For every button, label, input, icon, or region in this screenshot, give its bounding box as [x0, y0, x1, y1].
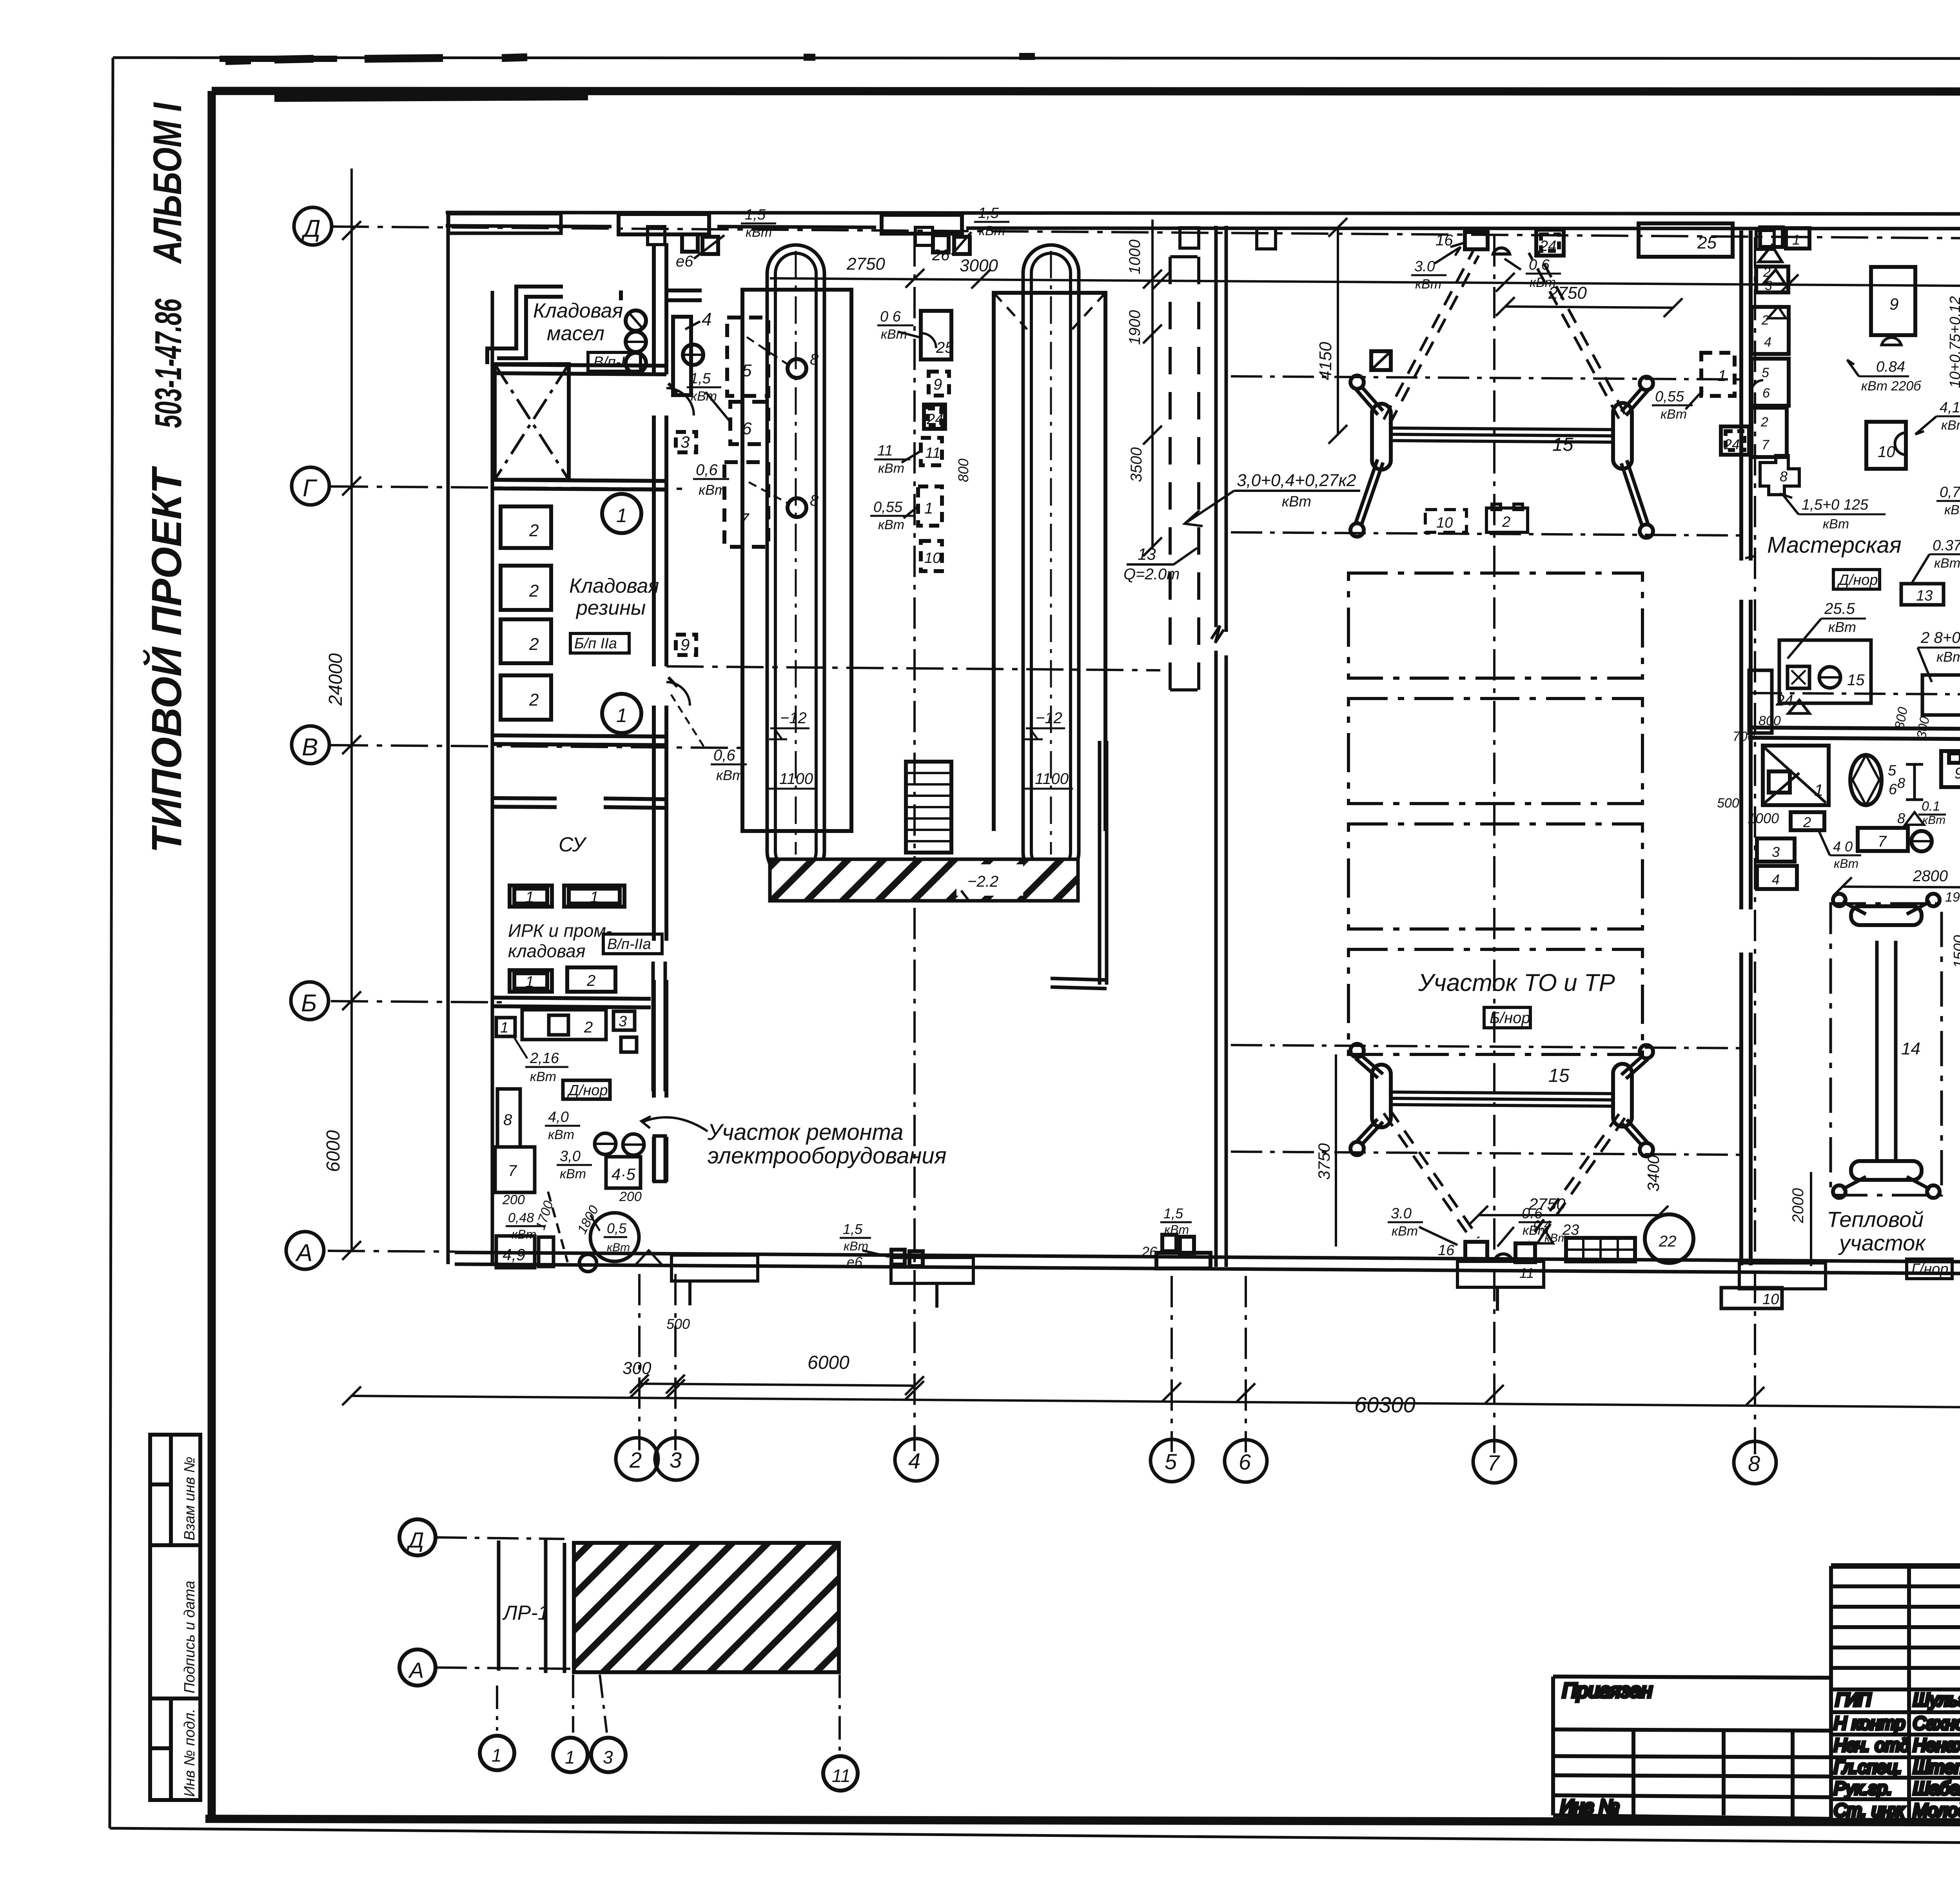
category label boxes	[570, 352, 662, 954]
svg-text:Инв № подл.: Инв № подл.	[181, 1709, 198, 1797]
svg-text:Сахновская: Сахновская	[1913, 1713, 1960, 1733]
axis Б bubble	[291, 982, 328, 1020]
axis А chain line	[328, 1251, 455, 1252]
svg-text:Б/п IIа: Б/п IIа	[574, 635, 617, 652]
dashed V down to bottom	[1384, 1109, 1625, 1245]
svg-text:11: 11	[877, 443, 893, 459]
axis Д chain line	[332, 227, 1960, 242]
svg-text:В: В	[302, 734, 318, 761]
svg-text:22: 22	[1659, 1233, 1677, 1250]
box 4,9	[496, 1236, 535, 1268]
sub dimension line 300 / 6000	[639, 1384, 915, 1386]
svg-text:Г: Г	[303, 475, 318, 502]
svg-text:60300: 60300	[1354, 1392, 1416, 1417]
box 7 + theta	[1858, 828, 1908, 851]
hatched ramp strip	[770, 859, 1078, 901]
rails triple	[1391, 428, 1614, 442]
axis Г chain line	[331, 486, 682, 489]
svg-text:Инв №: Инв №	[1560, 1796, 1619, 1817]
svg-text:7: 7	[1762, 437, 1769, 452]
door swing symbols on east wall	[666, 388, 694, 706]
svg-text:кВт: кВт	[1944, 503, 1960, 517]
svg-text:0,5: 0,5	[607, 1220, 627, 1236]
svg-text:кВт: кВт	[530, 1069, 556, 1084]
svg-text:2: 2	[1760, 415, 1768, 430]
circles 8 in pit1	[788, 359, 806, 378]
big circle 0,5	[590, 1213, 639, 1261]
bottom axis bubbles 2..11	[616, 1438, 1960, 1486]
big box 15	[1779, 640, 1871, 703]
box 9 dashed on wall	[676, 635, 696, 655]
svg-text:7: 7	[1878, 833, 1887, 850]
svg-text:Шабельницкий: Шабельницкий	[1913, 1778, 1960, 1798]
svg-text:19.4 кВо: 19.4 кВо	[1945, 890, 1960, 905]
svg-text:500: 500	[1717, 796, 1739, 811]
box 25 top	[1639, 223, 1733, 257]
box 1	[496, 1018, 515, 1036]
svg-text:0.37: 0.37	[1933, 537, 1960, 554]
svg-text:Кладовая: Кладовая	[533, 299, 623, 322]
dim 2750	[1505, 307, 1673, 308]
svg-text:4,0: 4,0	[548, 1109, 569, 1125]
svg-text:0,6: 0,6	[696, 461, 718, 479]
svg-text:−12: −12	[1036, 709, 1062, 727]
svg-text:3400: 3400	[1644, 1155, 1662, 1192]
top-left sheet edge marks	[220, 56, 1035, 97]
svg-text:503-1-47.86: 503-1-47.86	[147, 299, 189, 428]
apex box 16	[1465, 232, 1488, 249]
svg-text:300: 300	[622, 1359, 652, 1378]
svg-text:4150: 4150	[1316, 342, 1335, 380]
svg-text:Нач. отд: Нач. отд	[1834, 1735, 1910, 1755]
box 3 dashed on wall	[676, 432, 696, 452]
svg-text:кВт: кВт	[1415, 277, 1441, 292]
svg-text:1: 1	[590, 889, 599, 906]
svg-text:кВт: кВт	[881, 327, 907, 342]
circled 1 upper	[602, 494, 641, 533]
svg-text:кВт: кВт	[607, 1241, 630, 1254]
svg-text:15: 15	[1552, 434, 1573, 455]
detail bottom bubbles	[480, 1736, 514, 1770]
box 9	[1941, 751, 1960, 787]
svg-text:26: 26	[932, 247, 950, 264]
svg-text:2: 2	[584, 1019, 593, 1036]
box 7	[495, 1147, 535, 1192]
east wall of left section	[654, 243, 666, 1182]
svg-text:2: 2	[529, 690, 539, 709]
svg-text:1000: 1000	[1748, 810, 1779, 826]
lower masterskaya equipment	[1733, 516, 1960, 744]
mid column boxes between pits	[921, 311, 951, 359]
svg-text:1,5: 1,5	[690, 370, 711, 387]
svg-text:Участок ТО и ТР: Участок ТО и ТР	[1418, 969, 1615, 996]
svg-text:кВт: кВт	[878, 517, 904, 532]
svg-text:3: 3	[603, 1747, 613, 1767]
svg-text:1: 1	[565, 1747, 575, 1767]
axis Б chain line	[331, 1001, 502, 1002]
svg-text:кВт: кВт	[1544, 1232, 1568, 1245]
ТЕПЛОВОЙ УЧАСТОК lift 14	[1831, 904, 1942, 1195]
part 8 odd shape	[1760, 455, 1799, 495]
svg-text:25.5: 25.5	[1824, 600, 1855, 617]
privyazan table	[1553, 1677, 1831, 1819]
axis А bubble	[399, 1649, 436, 1686]
svg-text:кВт 220б: кВт 220б	[1861, 379, 1922, 394]
svg-text:4,9: 4,9	[503, 1245, 525, 1264]
small square	[621, 1037, 637, 1052]
svg-text:Штепин: Штепин	[1913, 1757, 1960, 1777]
left vertical dimension line with ticks	[350, 169, 353, 1251]
gate on А wall near axis 3	[891, 1250, 905, 1265]
svg-text:4·5: 4·5	[612, 1165, 635, 1183]
svg-text:3,0+0,4+0,27к2: 3,0+0,4+0,27к2	[1237, 471, 1356, 490]
ladder between pits	[906, 762, 951, 853]
svg-text:10: 10	[1878, 443, 1895, 461]
svg-text:3.0: 3.0	[1391, 1205, 1412, 1222]
svg-text:кВт: кВт	[1922, 814, 1945, 827]
svg-text:кВт: кВт	[1823, 517, 1849, 532]
svg-text:5: 5	[742, 361, 752, 380]
two theta circles	[595, 1133, 616, 1154]
wall column squares below top wall	[648, 227, 1960, 251]
signature rows text	[1834, 1689, 1960, 1820]
svg-text:6: 6	[1239, 1450, 1251, 1474]
square with diagonal	[1371, 351, 1391, 370]
room partition y1224	[492, 480, 666, 490]
box 4.5	[606, 1157, 641, 1188]
svg-text:ИРК и пром-: ИРК и пром-	[508, 920, 612, 941]
svg-text:800: 800	[955, 459, 971, 482]
svg-text:Д/нор: Д/нор	[1837, 572, 1878, 588]
svg-text:6: 6	[1889, 781, 1897, 798]
left pill	[1372, 404, 1391, 470]
small rect	[539, 1237, 554, 1267]
room wall below masterskaya y1930	[1751, 728, 1960, 739]
svg-text:9: 9	[1889, 295, 1898, 313]
svg-text:13: 13	[1916, 588, 1933, 604]
svg-text:2000: 2000	[1789, 1188, 1807, 1223]
svg-text:участок: участок	[1838, 1230, 1926, 1255]
vestibule top-left gate bar	[448, 214, 561, 233]
pit loop 2 stadium	[1023, 245, 1079, 880]
dashed boxes 10 и 2 below upper lift	[1425, 504, 1528, 532]
svg-text:кВт: кВт	[878, 461, 904, 476]
label box Д/нор	[563, 1080, 610, 1099]
svg-text:1: 1	[1792, 232, 1800, 248]
left vertical big text	[142, 102, 190, 853]
horizontal chain + dims near box15	[1751, 693, 1960, 695]
left stamp table (bottom)	[150, 1435, 200, 1800]
svg-text:кВт: кВт	[1941, 418, 1960, 433]
pit loop 1 stadium	[767, 245, 824, 880]
svg-text:2750: 2750	[1548, 283, 1587, 303]
svg-text:ТИПОВОЙ ПРОЕКТ: ТИПОВОЙ ПРОЕКТ	[142, 466, 190, 853]
upper lift 15: top chain	[1231, 376, 1740, 379]
upper lift bottom chain	[1231, 532, 1740, 535]
svg-text:8: 8	[1780, 468, 1788, 484]
svg-text:14: 14	[1901, 1039, 1920, 1058]
right pill	[1613, 403, 1632, 469]
box 10 with dome	[1866, 422, 1906, 469]
box 24 tall dashed	[1749, 670, 1772, 733]
svg-text:8: 8	[810, 492, 819, 509]
svg-text:ЛР-1: ЛР-1	[502, 1602, 549, 1624]
svg-text:Кладовая: Кладовая	[569, 575, 659, 597]
svg-text:2: 2	[1502, 514, 1510, 530]
small box 24 left of wall	[1721, 426, 1749, 455]
svg-text:1: 1	[1718, 367, 1726, 385]
svg-text:5: 5	[1888, 762, 1896, 779]
svg-text:0,55: 0,55	[873, 499, 903, 515]
box 16	[1922, 675, 1960, 715]
svg-text:1100: 1100	[779, 770, 813, 788]
svg-text:Рук.гр.: Рук.гр.	[1834, 1778, 1892, 1798]
grid box 23	[1566, 1238, 1635, 1261]
svg-text:0.6: 0.6	[1529, 257, 1550, 273]
svg-text:4: 4	[908, 1448, 920, 1473]
svg-text:Г/нор: Г/нор	[1911, 1261, 1948, 1277]
svg-text:9: 9	[933, 376, 942, 393]
Участок ремонта электрооборудования label	[707, 1120, 947, 1169]
svg-text:10: 10	[1762, 1291, 1779, 1308]
svg-text:резины: резины	[575, 597, 646, 619]
svg-text:кВт: кВт	[746, 225, 772, 240]
svg-text:200: 200	[502, 1192, 525, 1207]
apex box 24 double	[1536, 230, 1564, 256]
svg-text:3: 3	[1772, 844, 1780, 860]
svg-text:3500: 3500	[1128, 447, 1145, 482]
svg-text:кВт: кВт	[1392, 1224, 1418, 1239]
svg-text:1100: 1100	[1035, 770, 1069, 788]
svg-text:3,0: 3,0	[560, 1148, 581, 1165]
svg-text:3: 3	[619, 1013, 627, 1030]
I mark	[1906, 764, 1923, 800]
svg-text:25: 25	[1697, 233, 1717, 252]
hatched slab	[574, 1543, 839, 1672]
pilaster stubs east wall	[621, 290, 702, 300]
svg-text:3: 3	[670, 1448, 682, 1472]
pit rect 1	[742, 290, 851, 831]
svg-text:Ст. инж: Ст. инж	[1834, 1800, 1905, 1820]
svg-text:2750: 2750	[1528, 1195, 1566, 1213]
box 9	[1871, 267, 1915, 335]
svg-text:Ненахов: Ненахов	[1913, 1735, 1960, 1755]
svg-text:е6: е6	[676, 253, 693, 270]
west wall of building	[448, 214, 492, 1264]
svg-text:3: 3	[681, 433, 690, 451]
box 8	[497, 1089, 520, 1147]
svg-text:9: 9	[1955, 765, 1960, 782]
svg-text:В/п-I: В/п-I	[593, 354, 625, 370]
svg-text:Д: Д	[301, 215, 321, 242]
bottom boxes	[1465, 1242, 1487, 1260]
svg-text:Б/нор: Б/нор	[1490, 1009, 1530, 1027]
slanted arms	[1356, 386, 1383, 526]
gate on axis5 wall bottom	[1156, 1253, 1210, 1268]
svg-text:кВт: кВт	[560, 1167, 586, 1181]
svg-text:СУ: СУ	[559, 833, 587, 856]
svg-text:2: 2	[1803, 814, 1811, 830]
svg-text:Д/нор: Д/нор	[567, 1082, 608, 1099]
partition dashed double line axis5 area	[1170, 257, 1199, 690]
axis Д bubble	[294, 207, 332, 245]
axis В bubble	[292, 726, 329, 764]
box 3	[613, 1011, 635, 1030]
axis А bubble	[286, 1232, 324, 1269]
svg-text:кВт: кВт	[548, 1127, 574, 1142]
room partition y1876	[492, 735, 666, 745]
oval 5/6	[1850, 755, 1882, 805]
svg-text:5: 5	[1165, 1449, 1177, 1474]
svg-text:ГИП: ГИП	[1835, 1689, 1871, 1710]
svg-text:1000: 1000	[1126, 240, 1143, 274]
svg-text:0,6: 0,6	[713, 747, 735, 764]
vertical column axis chain lines	[638, 1274, 641, 1450]
svg-text:Б: Б	[301, 990, 317, 1017]
lower lift 15 top chain	[1231, 1045, 1740, 1048]
svg-text:5: 5	[1762, 365, 1769, 380]
svg-text:1,5: 1,5	[1163, 1205, 1183, 1221]
svg-text:2: 2	[1761, 313, 1769, 328]
building bottom wall on axis A	[455, 1252, 1960, 1277]
bottom dimension line 60300	[352, 1396, 1960, 1411]
svg-text:масел: масел	[547, 322, 604, 345]
svg-text:Гл.спец.: Гл.спец.	[1834, 1757, 1902, 1777]
svg-text:200: 200	[619, 1189, 642, 1204]
svg-text:А: А	[408, 1658, 424, 1682]
svg-text:4: 4	[1772, 871, 1780, 887]
dashed V to apex	[1384, 249, 1625, 424]
wall right of electro room	[653, 962, 665, 1091]
rezina room: 4 boxes 2	[501, 506, 551, 548]
svg-text:24: 24	[1539, 238, 1556, 254]
svg-text:2800: 2800	[1913, 867, 1948, 885]
svg-text:Шульгин: Шульгин	[1913, 1689, 1960, 1710]
svg-text:2: 2	[529, 635, 539, 654]
svg-text:4,15: 4,15	[1940, 399, 1960, 416]
svg-text:8: 8	[503, 1111, 512, 1129]
4 car rectangles dash-dot	[1348, 573, 1642, 678]
svg-text:Молодцова: Молодцова	[1913, 1800, 1960, 1820]
svg-text:1500: 1500	[1951, 935, 1960, 968]
svg-text:−12: −12	[780, 709, 807, 727]
left equipment stack	[1756, 267, 1788, 292]
svg-text:Участок ремонта: Участок ремонта	[707, 1120, 904, 1145]
dim 4150 vertical	[1337, 227, 1339, 434]
svg-text:25: 25	[936, 339, 954, 356]
funnel box 1	[1763, 746, 1829, 805]
svg-text:6: 6	[742, 419, 752, 438]
svg-text:кВт: кВт	[979, 223, 1005, 238]
svg-text:500: 500	[666, 1316, 690, 1332]
svg-text:10: 10	[1436, 515, 1453, 531]
svg-text:8: 8	[810, 351, 819, 368]
svg-text:1: 1	[924, 500, 933, 517]
svg-text:1: 1	[616, 504, 627, 526]
svg-text:2750: 2750	[846, 254, 885, 274]
svg-text:16: 16	[1438, 1242, 1455, 1259]
svg-text:24000: 24000	[325, 653, 346, 706]
dashed box 1 left of wall	[1701, 353, 1735, 396]
svg-text:Н контр: Н контр	[1834, 1713, 1905, 1733]
svg-text:11: 11	[925, 445, 940, 461]
circle 22	[1645, 1214, 1693, 1263]
svg-text:Q=2.0т: Q=2.0т	[1123, 566, 1180, 583]
vertical dim chain right of pits	[1126, 220, 1162, 556]
svg-text:3750: 3750	[1315, 1143, 1333, 1180]
svg-text:11: 11	[1519, 1265, 1534, 1281]
svg-text:Д: Д	[406, 1528, 424, 1552]
svg-text:1,5: 1,5	[745, 207, 766, 223]
pit wall lines	[499, 1539, 564, 1673]
svg-text:8: 8	[1897, 775, 1905, 791]
svg-text:кВт: кВт	[1164, 1223, 1189, 1237]
axis Д bubble	[399, 1519, 436, 1555]
circled 1 lower	[602, 694, 641, 733]
svg-text:кВт: кВт	[1834, 856, 1858, 871]
svg-text:2: 2	[529, 581, 539, 601]
svg-text:2,16: 2,16	[530, 1050, 559, 1067]
Участок ТО и ТР label	[1418, 969, 1615, 996]
svg-text:6000: 6000	[323, 1130, 344, 1172]
gate bar 1 on top wall	[619, 214, 709, 234]
room partition y2545	[492, 998, 651, 1007]
vertical chains to bottom circles	[497, 1675, 840, 1752]
apex dome	[1493, 248, 1510, 254]
svg-text:В/п-IIа: В/п-IIа	[607, 936, 651, 953]
svg-text:кладовая: кладовая	[508, 941, 585, 961]
svg-text:0 6: 0 6	[880, 308, 901, 325]
svg-text:10+0,75+0,12: 10+0,75+0,12	[1947, 296, 1960, 388]
svg-text:2 8+0 4: 2 8+0 4	[1920, 629, 1960, 646]
box 2 long with inner square	[522, 1010, 606, 1040]
svg-text:кВт: кВт	[1936, 649, 1960, 665]
svg-text:24: 24	[926, 411, 943, 428]
svg-text:15: 15	[1548, 1065, 1570, 1086]
svg-text:кВт: кВт	[1934, 556, 1960, 571]
top small boxes with triangles	[1760, 227, 1783, 247]
column pads on bottom wall	[671, 1255, 1960, 1316]
svg-text:8: 8	[1748, 1451, 1760, 1476]
svg-text:7: 7	[508, 1162, 517, 1179]
boxes 3 4	[1757, 838, 1795, 862]
svg-text:А: А	[295, 1239, 312, 1267]
svg-text:6000: 6000	[808, 1352, 849, 1373]
svg-text:1: 1	[1814, 781, 1823, 799]
svg-text:2: 2	[629, 1448, 642, 1472]
svg-text:4: 4	[702, 309, 712, 329]
svg-text:0.84: 0.84	[1876, 359, 1905, 375]
svg-text:13: 13	[1138, 545, 1156, 563]
axis Г bubble	[292, 467, 329, 505]
svg-text:1,5+0 125: 1,5+0 125	[1802, 497, 1869, 513]
svg-text:кВт: кВт	[716, 767, 744, 783]
svg-text:0,75: 0,75	[1940, 484, 1960, 501]
svg-text:3000: 3000	[960, 256, 998, 275]
svg-text:1: 1	[500, 1020, 508, 1036]
svg-text:Привязан: Привязан	[1562, 1679, 1652, 1702]
corner circles	[1350, 376, 1364, 389]
dim 2800	[1842, 887, 1960, 887]
west wall of masterskaya	[1741, 230, 1751, 1265]
svg-text:1: 1	[616, 704, 627, 726]
svg-text:1,5: 1,5	[843, 1221, 863, 1237]
svg-text:7: 7	[739, 510, 750, 529]
svg-text:9: 9	[681, 635, 690, 654]
svg-text:1900: 1900	[1126, 310, 1143, 345]
svg-text:4: 4	[1764, 335, 1771, 350]
maslo room west stepped wall	[487, 287, 563, 364]
